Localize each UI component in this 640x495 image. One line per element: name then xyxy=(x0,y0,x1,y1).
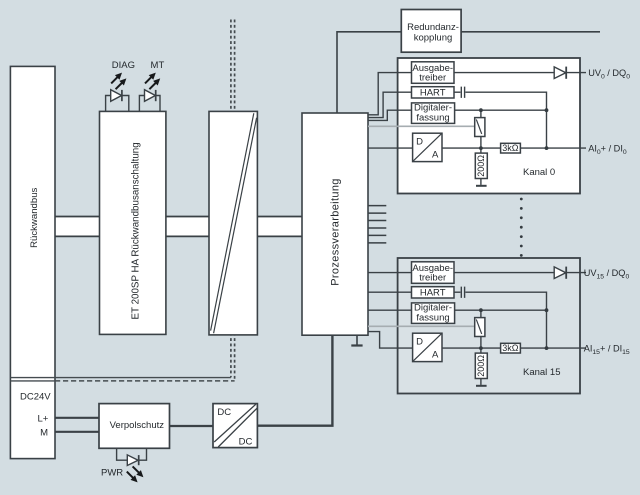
wire Prozessverarbeitung to HART ch0 xyxy=(368,92,412,117)
resistor 200Ohm ch0 xyxy=(475,153,487,178)
wire Prozessverarbeitung to HART ch15 xyxy=(368,291,412,293)
wire 3k resistor to AI terminal ch0 xyxy=(520,147,586,149)
svg-text:treiber: treiber xyxy=(419,73,446,84)
electronic switch ch0 xyxy=(475,118,485,137)
svg-text:ET 200SP HA Rückwandbusanschal: ET 200SP HA Rückwandbusanschaltung xyxy=(130,142,141,319)
HART box ch15 xyxy=(412,287,455,298)
gray control wire ch15 xyxy=(368,325,475,327)
ground below 200Ohm ch15 xyxy=(480,379,482,385)
svg-text:A: A xyxy=(432,350,439,361)
DC/DC converter box xyxy=(213,404,257,448)
isolation boundary vertical dashed line (right) xyxy=(234,20,236,381)
HART coupling capacitor ch0 xyxy=(461,87,464,98)
svg-text:D: D xyxy=(416,136,423,147)
svg-text:HART: HART xyxy=(420,88,446,99)
svg-text:DIAG: DIAG xyxy=(112,60,135,71)
wire Prozessverarbeitung to Digitalerfassung ch0 xyxy=(368,110,412,120)
output diode ch0 xyxy=(554,67,566,79)
svg-text:Kanal 0: Kanal 0 xyxy=(523,167,555,178)
Prozessverarbeitung box xyxy=(302,113,368,335)
DC/DC diagonal lines xyxy=(214,404,257,447)
DA converter box ch0 xyxy=(413,133,442,161)
wire Redundanzkopplung to right xyxy=(461,31,600,33)
HART coupling capacitor ch15 xyxy=(461,287,464,298)
svg-text:DC: DC xyxy=(239,436,253,447)
wire 3k resistor to AI terminal ch15 xyxy=(520,347,586,349)
LED DIAG arrow 2 xyxy=(116,83,123,90)
svg-text:Verpolschutz: Verpolschutz xyxy=(110,420,165,431)
svg-text:MT: MT xyxy=(151,60,165,71)
svg-text:3kΩ: 3kΩ xyxy=(502,143,519,153)
LED PWR xyxy=(101,448,147,482)
Redundanzkopplung box xyxy=(401,10,461,53)
Ausgabetreiber box ch0 xyxy=(412,62,455,84)
junction dots ch15 xyxy=(479,308,483,312)
Digitalerfassung box ch15 xyxy=(412,303,455,324)
wire Prozessverarbeitung to Digitalerfassung ch15 xyxy=(368,309,412,311)
wire M xyxy=(55,431,99,433)
svg-text:D: D xyxy=(416,336,423,347)
svg-text:kopplung: kopplung xyxy=(414,32,453,43)
wire diode to UV terminal ch15 xyxy=(566,272,586,274)
isolation diagonal lines xyxy=(211,113,257,333)
svg-text:Prozessverarbeitung: Prozessverarbeitung xyxy=(330,178,342,286)
gray control wire ch0 xyxy=(368,125,475,127)
wire Digitalerfassung to node ch0 xyxy=(455,109,547,111)
svg-text:DC24V: DC24V xyxy=(20,391,51,402)
wire DA to 3k resistor ch0 xyxy=(442,147,501,149)
svg-text:A: A xyxy=(432,150,439,161)
svg-text:DC: DC xyxy=(217,407,231,418)
Verpolschutz box xyxy=(99,404,170,449)
channel 0 outer box xyxy=(398,58,580,194)
LED MT xyxy=(139,60,164,111)
LED PWR arrow 1 xyxy=(133,466,140,473)
wire DA to 3k resistor ch15 xyxy=(442,347,501,349)
resistor 3kOhm ch0 xyxy=(501,143,521,153)
isolation boundary horizontal line (upper, solid) xyxy=(10,377,231,379)
svg-text:fassung: fassung xyxy=(416,312,449,323)
wire Prozessverarbeitung to DA converter ch15 xyxy=(368,332,413,349)
Digitalerfassung box ch0 xyxy=(412,103,455,124)
wire DC/DC to Prozessverarbeitung xyxy=(257,335,332,426)
wire diode to UV terminal ch0 xyxy=(566,72,586,74)
LED DIAG diode xyxy=(111,90,122,102)
wire: bus ET200SP to isolation xyxy=(166,217,209,237)
svg-text:Kanal 15: Kanal 15 xyxy=(523,367,561,378)
ET 200SP HA box xyxy=(100,111,166,334)
wire Redundanzkopplung to Prozessverarbeitung xyxy=(337,32,401,113)
LED DIAG arrow 1 xyxy=(111,77,118,84)
wire switch branch ch0 xyxy=(480,110,482,153)
wire Prozessverarbeitung to Ausgabetreiber ch15 xyxy=(368,272,412,274)
galvanic isolation box xyxy=(209,111,257,335)
resistor 3kOhm ch15 xyxy=(501,343,521,353)
Ausgabetreiber box ch15 xyxy=(412,262,455,284)
LED PWR arrow 2 xyxy=(127,472,134,479)
channel 15 outer box xyxy=(398,258,580,394)
svg-text:treiber: treiber xyxy=(419,273,446,284)
isolation boundary vertical dashed line (left) xyxy=(230,20,232,378)
svg-text:200Ω: 200Ω xyxy=(476,355,486,377)
wire capacitor to AI node ch0 xyxy=(465,92,546,148)
ground below Prozessverarbeitung xyxy=(356,335,358,344)
ground below 200Ohm ch0 xyxy=(480,179,482,185)
svg-text:L+: L+ xyxy=(37,413,48,424)
wire Prozessverarbeitung to Ausgabetreiber ch0 xyxy=(368,73,412,115)
wire Digitalerfassung to node ch15 xyxy=(455,309,547,311)
electronic switch ch15 xyxy=(475,318,485,337)
wire L+ xyxy=(55,417,99,419)
wire: bus isolation to Prozessverarbeitung xyxy=(257,217,302,237)
svg-text:3kΩ: 3kΩ xyxy=(502,343,519,353)
wire switch branch ch15 xyxy=(480,310,482,353)
wire Prozessverarbeitung to DA converter ch0 xyxy=(368,147,413,149)
Rueckwandbus box xyxy=(10,66,55,458)
LED DIAG xyxy=(106,60,135,111)
junction dots ch0 xyxy=(479,108,483,112)
wire HART to capacitor ch0 xyxy=(454,91,460,93)
svg-text:PWR: PWR xyxy=(101,468,123,479)
HART box ch0 xyxy=(412,87,455,98)
wire Ausgabetreiber to diode ch15 xyxy=(454,272,554,274)
LED PWR diode xyxy=(127,455,138,466)
svg-text:Rückwandbus: Rückwandbus xyxy=(29,187,40,247)
svg-text:M: M xyxy=(40,428,48,439)
resistor 200Ohm ch15 xyxy=(475,353,487,378)
LED MT diode xyxy=(145,90,156,102)
svg-text:HART: HART xyxy=(420,288,446,299)
LED MT arrow 2 xyxy=(149,83,156,90)
svg-text:fassung: fassung xyxy=(416,112,449,123)
isolation boundary horizontal line (lower, dashed) xyxy=(10,380,55,382)
wire HART to capacitor ch15 xyxy=(454,291,460,293)
comb of bus stub lines right of Prozessverarbeitung xyxy=(368,206,386,243)
LED MT arrow 1 xyxy=(145,77,152,84)
wire Ausgabetreiber to diode ch0 xyxy=(454,72,554,74)
wire: backplane bus Rueckwandbus to ET200SP xyxy=(55,217,100,237)
wire capacitor to AI node ch15 xyxy=(465,292,546,348)
wire Verpolschutz to DC/DC xyxy=(170,425,214,427)
dots between channel blocks xyxy=(520,198,523,257)
DA converter box ch15 xyxy=(413,333,442,361)
output diode ch15 xyxy=(554,267,566,279)
svg-text:200Ω: 200Ω xyxy=(476,155,486,177)
